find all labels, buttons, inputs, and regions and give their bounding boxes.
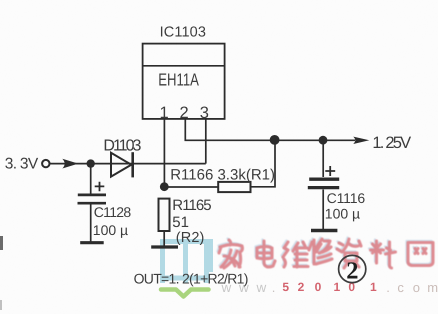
arrow on input wire xyxy=(62,159,78,169)
wire pin1 drop xyxy=(163,119,165,187)
paper noise overlay xyxy=(0,0,1,1)
terminal 3.3V input circle xyxy=(42,160,49,167)
维 xyxy=(283,242,308,267)
电 xyxy=(257,241,275,267)
resistor R1166 3.3k body xyxy=(218,182,250,192)
wire R1166 right + feedback riser xyxy=(251,140,276,187)
diode D1103 cathode bar xyxy=(131,152,134,177)
IC box U1103 xyxy=(143,44,225,119)
修 xyxy=(308,238,331,263)
label EH11A xyxy=(158,70,199,90)
watermark cyan grid xyxy=(160,239,211,283)
circled figure number 2 xyxy=(339,255,366,284)
junction dot feedback node xyxy=(270,135,280,145)
家 xyxy=(219,240,242,268)
watermark green brace xyxy=(161,290,209,297)
ground bar C1116 xyxy=(311,229,337,232)
resistor R1165 51 body xyxy=(159,199,170,231)
wire C1116 lower xyxy=(322,190,324,230)
家 xyxy=(218,239,241,267)
watermark url row xyxy=(221,280,438,295)
watermark hanzi row xyxy=(218,238,432,267)
wire R1165 lower xyxy=(163,231,165,246)
capacitor C1128 plus xyxy=(95,182,105,192)
料 xyxy=(369,240,394,267)
capacitor C1116 plus xyxy=(325,166,335,176)
capacitor C1128 plates xyxy=(78,194,106,197)
wire pin3 drop xyxy=(205,119,207,164)
wire C1116 tap xyxy=(322,140,324,177)
capacitor C1116 plates xyxy=(309,177,339,180)
维 xyxy=(282,241,307,266)
网 xyxy=(408,243,433,266)
arrow to 1.25V output xyxy=(353,137,369,144)
junction dot C1116 node xyxy=(319,136,328,145)
ground bar R1165 xyxy=(151,245,178,248)
wire C1128 tap xyxy=(90,164,92,194)
junction dot C1128 tap xyxy=(87,159,95,167)
资 xyxy=(336,238,360,267)
left edge scan artifacts xyxy=(0,236,3,310)
wire pin2 to output xyxy=(185,119,355,140)
修 xyxy=(309,239,332,264)
ground bar C1128 xyxy=(80,241,104,244)
diode D1103 triangle xyxy=(111,153,131,177)
junction dot ADJ node xyxy=(160,182,169,191)
网 xyxy=(407,241,432,264)
wire C1128 lower xyxy=(90,204,92,241)
schematic ink xyxy=(42,44,355,247)
IC tab divider xyxy=(143,65,225,67)
wire R1166 left xyxy=(164,186,218,188)
料 xyxy=(371,241,396,268)
wire main VIN line xyxy=(49,163,205,165)
资 xyxy=(337,239,361,268)
电 xyxy=(256,240,274,266)
